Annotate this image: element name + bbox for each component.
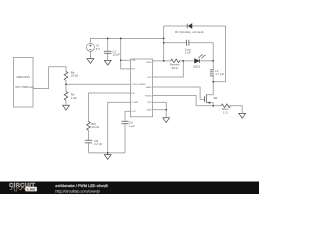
svg-text:4.7 µH: 4.7 µH — [215, 72, 224, 76]
svg-text:http://circuitlab.com/cxwvj3: http://circuitlab.com/cxwvj3 — [55, 189, 100, 193]
svg-text:2.2 nF: 2.2 nF — [94, 142, 102, 146]
svg-text:PGND: PGND — [145, 95, 152, 97]
svg-text:ARDUINO: ARDUINO — [17, 75, 31, 79]
svg-text:1 kΩ: 1 kΩ — [71, 96, 78, 100]
svg-text:COMP: COMP — [132, 102, 139, 104]
svg-text:10 kΩ: 10 kΩ — [71, 74, 79, 78]
svg-text:LAB: LAB — [27, 187, 35, 192]
svg-text:LM3409: LM3409 — [138, 84, 147, 86]
svg-text:OVP: OVP — [147, 77, 152, 79]
svg-text:EN: EN — [132, 69, 135, 71]
svg-text:VIN: VIN — [132, 60, 136, 62]
svg-text:56 Ω: 56 Ω — [172, 66, 179, 70]
svg-text:GATE: GATE — [146, 86, 152, 89]
svg-text:5 V: 5 V — [96, 47, 100, 51]
svg-text:10 µF: 10 µF — [113, 53, 121, 57]
svg-text:1 µF: 1 µF — [185, 51, 191, 55]
svg-text:GND: GND — [147, 110, 152, 112]
svg-text:OUT (PWM out): OUT (PWM out) — [15, 85, 34, 89]
svg-text:VCC: VCC — [132, 111, 137, 113]
svg-text:D1 (Schottky, not ideal): D1 (Schottky, not ideal) — [175, 30, 203, 34]
svg-text:ISNS: ISNS — [146, 62, 152, 64]
svg-text:CSP: CSP — [147, 102, 152, 104]
svg-text:1 µF: 1 µF — [129, 124, 135, 128]
svg-text:solidsnake / PWM LED circuit: solidsnake / PWM LED circuit — [55, 184, 108, 188]
svg-text:LED1: LED1 — [193, 64, 201, 68]
svg-text:M1: M1 — [214, 96, 218, 100]
svg-text:10 kΩ: 10 kΩ — [91, 125, 99, 129]
